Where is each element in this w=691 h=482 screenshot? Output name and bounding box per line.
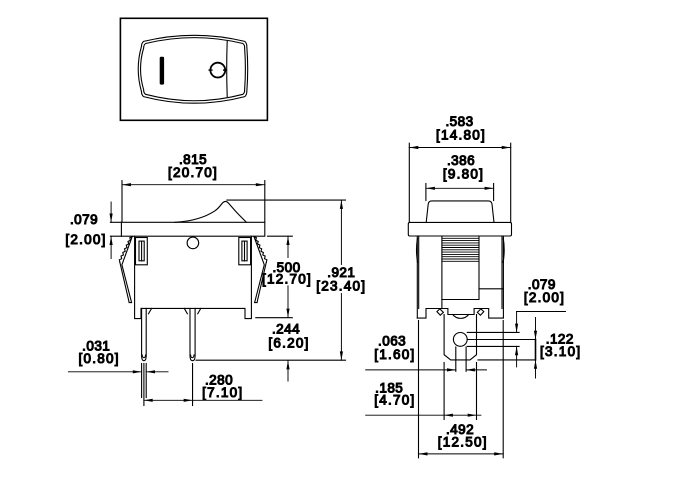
- dim .031 extension lines: [141, 364, 143, 398]
- dim .500 line: [287, 236, 289, 317]
- right spring wing serrated edge: [254, 237, 267, 263]
- base latch left diamond: [437, 309, 444, 315]
- dim .583 extension left: [408, 143, 410, 222]
- dim .122 line: [535, 318, 537, 379]
- dim .921 extension top: [227, 199, 346, 201]
- plunger hatch: [442, 238, 479, 261]
- panel frame: [120, 18, 267, 120]
- pin 2 boss chamfer left: [184, 308, 187, 313]
- left mounting clip inner: [139, 241, 144, 261]
- left mounting clip outer: [136, 238, 148, 265]
- ON bar marking: [160, 57, 164, 85]
- terminal tab line left: [455, 347, 457, 371]
- body right wall: [502, 236, 504, 318]
- svg-text:[20.70]: [20.70]: [168, 165, 218, 180]
- svg-text:.079: .079: [70, 212, 98, 227]
- body left inner wall: [418, 236, 420, 309]
- left wing edge-on: [416, 239, 417, 263]
- pin 2: [190, 308, 195, 360]
- pin 1 boss chamfer: [149, 308, 152, 313]
- circle left tick: [209, 69, 212, 71]
- terminal blade: [444, 315, 476, 360]
- body left wall: [416, 236, 418, 318]
- rocker face inner: [141, 38, 246, 101]
- pin 2 tip detail: [191, 355, 194, 358]
- base profile: [417, 309, 503, 319]
- terminal hole: [453, 333, 467, 347]
- left spring wing serrated edge: [119, 237, 132, 263]
- svg-text:[2.00]: [2.00]: [524, 290, 565, 305]
- plunger step line: [479, 288, 503, 290]
- base latch right diamond: [477, 309, 484, 315]
- pin 1: [142, 308, 147, 360]
- dim .031 line: [68, 371, 168, 373]
- svg-text:[3.10]: [3.10]: [540, 344, 581, 359]
- svg-text:[4.70]: [4.70]: [374, 393, 415, 408]
- dim .815 extension left: [121, 181, 123, 222]
- rocker knob front view: [426, 201, 494, 223]
- rocker hump curve: [175, 201, 246, 222]
- blade bottom ext: [478, 359, 536, 361]
- dim .386 extension left: [425, 184, 427, 201]
- body right inner wall: [501, 236, 503, 309]
- dim .280 extension lines: [143, 364, 145, 406]
- bezel side view: [121, 222, 264, 236]
- hole center ext: [467, 339, 535, 341]
- dim .079 arrow top: [110, 202, 112, 259]
- dim .079 tick bottom: [110, 235, 121, 237]
- dim .815 extension right: [264, 181, 266, 222]
- rocker divider: [226, 42, 229, 97]
- dim .492 extension lines: [418, 321, 420, 458]
- plunger guide line: [441, 300, 443, 309]
- dim .280 line: [144, 399, 262, 401]
- svg-text:[7.10]: [7.10]: [202, 385, 243, 400]
- dim .079 tick top: [110, 221, 121, 223]
- svg-text:[1.60]: [1.60]: [374, 347, 415, 362]
- dim .063 line: [366, 369, 487, 371]
- dim .185 line: [366, 414, 481, 416]
- dim .815 line: [122, 184, 265, 186]
- right spring wing blade: [254, 237, 266, 303]
- svg-text:[2.00]: [2.00]: [65, 232, 106, 247]
- dim .583 extension right: [510, 143, 512, 222]
- svg-text:.063: .063: [378, 333, 406, 348]
- dim .185 extension lines: [443, 363, 445, 420]
- pin 1 tip detail: [142, 355, 145, 358]
- dim .500 extension top: [268, 235, 293, 237]
- hole top tangent ext: [467, 331, 519, 333]
- svg-text:[9.80]: [9.80]: [443, 167, 484, 182]
- svg-text:[23.40]: [23.40]: [316, 278, 366, 293]
- dim .921 line: [340, 200, 342, 360]
- svg-text:[12.70]: [12.70]: [262, 271, 312, 286]
- svg-text:[14.80]: [14.80]: [436, 128, 486, 143]
- right mounting clip center line: [244, 241, 246, 261]
- svg-text:.244: .244: [272, 321, 300, 336]
- body outline with feet: [135, 236, 252, 318]
- right wing edge-on: [503, 239, 504, 263]
- left spring wing blade: [120, 237, 132, 303]
- terminal tab line right: [465, 347, 467, 371]
- bezel front view: [408, 222, 511, 236]
- pin tip extension line: [196, 359, 346, 361]
- dim .079 right leader: [517, 312, 566, 367]
- OFF circle marking: [210, 63, 225, 78]
- dim .583 line: [409, 147, 510, 149]
- plunger block: [442, 236, 479, 300]
- left mounting clip center line: [141, 241, 143, 261]
- dim .815 arrows: [122, 183, 265, 186]
- svg-text:[6.20]: [6.20]: [268, 336, 309, 351]
- dim .386 extension right: [493, 184, 495, 201]
- dim .386 line: [426, 187, 494, 189]
- right mounting clip inner: [242, 241, 247, 261]
- svg-text:[12.50]: [12.50]: [438, 434, 488, 449]
- circle right tick: [224, 69, 227, 71]
- dim .244 arrow below: [287, 361, 289, 381]
- hole bottom tangent ext: [467, 345, 519, 347]
- svg-text:[0.80]: [0.80]: [78, 351, 119, 366]
- terminal dome: [453, 315, 469, 319]
- shared extension line feet: [256, 317, 292, 319]
- rocker face outer: [138, 35, 247, 103]
- right mounting clip outer: [239, 238, 251, 265]
- dim .492 line: [419, 453, 504, 455]
- pin 2 boss chamfer right: [198, 308, 201, 313]
- pivot circle: [187, 237, 199, 249]
